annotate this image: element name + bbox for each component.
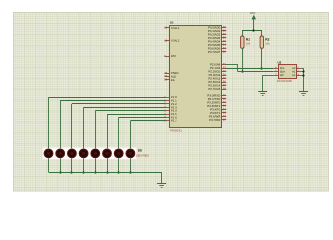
svg-text:23: 23 <box>223 70 226 73</box>
svg-text:ALE: ALE <box>171 75 176 78</box>
svg-text:P2.2/A10: P2.2/A10 <box>208 70 220 74</box>
svg-text:7: 7 <box>275 74 277 77</box>
svg-text:33: 33 <box>223 47 226 50</box>
svg-text:P1.7: P1.7 <box>171 120 177 123</box>
svg-text:34: 34 <box>223 43 226 46</box>
svg-text:P2.3/A11: P2.3/A11 <box>209 73 221 77</box>
svg-text:16: 16 <box>223 115 226 118</box>
svg-text:U2: U2 <box>278 61 282 65</box>
svg-text:U1: U1 <box>170 21 174 25</box>
svg-text:2: 2 <box>297 70 299 73</box>
svg-text:38: 38 <box>223 30 226 33</box>
svg-text:19: 19 <box>164 27 167 30</box>
svg-text:P2.7/A15: P2.7/A15 <box>208 87 220 91</box>
svg-text:P1.3: P1.3 <box>171 106 177 109</box>
svg-text:P2.6/A14: P2.6/A14 <box>208 84 220 88</box>
svg-text:D8: D8 <box>138 149 142 153</box>
svg-text:P0.7/AD7: P0.7/AD7 <box>208 50 220 54</box>
svg-text:22: 22 <box>223 67 226 70</box>
svg-text:9: 9 <box>164 55 166 58</box>
svg-text:6: 6 <box>275 67 277 70</box>
svg-text:13: 13 <box>223 104 226 107</box>
svg-text:WP: WP <box>280 74 284 77</box>
svg-text:XTAL1: XTAL1 <box>171 27 179 30</box>
svg-text:17: 17 <box>223 118 226 121</box>
svg-text:EA: EA <box>171 79 175 82</box>
svg-text:24: 24 <box>223 74 226 77</box>
svg-text:30: 30 <box>164 75 167 78</box>
svg-text:XTAL2: XTAL2 <box>171 40 179 43</box>
svg-text:VCC: VCC <box>250 12 256 15</box>
svg-text:RST: RST <box>171 55 177 58</box>
svg-text:P2.0/A8: P2.0/A8 <box>210 63 220 67</box>
svg-text:P3.7/RD: P3.7/RD <box>209 118 220 122</box>
svg-text:10: 10 <box>223 94 226 97</box>
svg-text:SCL: SCL <box>280 67 285 70</box>
svg-text:10k: 10k <box>246 43 251 46</box>
svg-text:A2: A2 <box>292 74 295 77</box>
svg-text:27: 27 <box>223 84 226 87</box>
svg-text:P2.4/A12: P2.4/A12 <box>208 77 220 81</box>
svg-text:14: 14 <box>223 108 226 111</box>
svg-text:P1.4: P1.4 <box>171 110 177 113</box>
svg-text:39: 39 <box>223 26 226 29</box>
svg-text:12: 12 <box>223 101 226 104</box>
svg-text:P1.6: P1.6 <box>171 116 177 119</box>
svg-text:PSEN: PSEN <box>171 72 179 75</box>
svg-text:29: 29 <box>164 72 167 75</box>
svg-text:P2.1/A9: P2.1/A9 <box>210 66 220 70</box>
svg-text:10k: 10k <box>265 43 270 46</box>
svg-text:32: 32 <box>223 50 226 53</box>
svg-text:35: 35 <box>223 40 226 43</box>
svg-text:R1: R1 <box>246 38 250 42</box>
svg-text:15: 15 <box>223 111 226 114</box>
svg-text:P2.5/A13: P2.5/A13 <box>208 80 220 84</box>
svg-text:AT24C02B: AT24C02B <box>277 79 292 83</box>
svg-text:LED-RED: LED-RED <box>136 154 149 158</box>
svg-text:R2: R2 <box>265 38 269 42</box>
svg-text:36: 36 <box>223 36 226 39</box>
svg-text:3: 3 <box>297 74 299 77</box>
svg-text:AT89C51: AT89C51 <box>170 129 182 133</box>
svg-text:A0: A0 <box>292 67 295 70</box>
svg-text:31: 31 <box>164 79 167 82</box>
svg-text:A1: A1 <box>292 71 295 74</box>
svg-text:25: 25 <box>223 77 226 80</box>
svg-text:P1.1: P1.1 <box>171 100 177 103</box>
svg-text:26: 26 <box>223 81 226 84</box>
svg-text:P1.5: P1.5 <box>171 113 177 116</box>
svg-text:28: 28 <box>223 88 226 91</box>
svg-text:11: 11 <box>223 98 226 101</box>
svg-text:21: 21 <box>223 63 226 66</box>
svg-text:37: 37 <box>223 33 226 36</box>
svg-text:18: 18 <box>164 39 167 42</box>
svg-text:P1.2: P1.2 <box>171 103 177 106</box>
svg-text:5: 5 <box>275 70 277 73</box>
svg-text:1: 1 <box>297 67 299 70</box>
svg-text:SDA: SDA <box>280 71 286 74</box>
svg-text:P1.0: P1.0 <box>171 96 177 99</box>
